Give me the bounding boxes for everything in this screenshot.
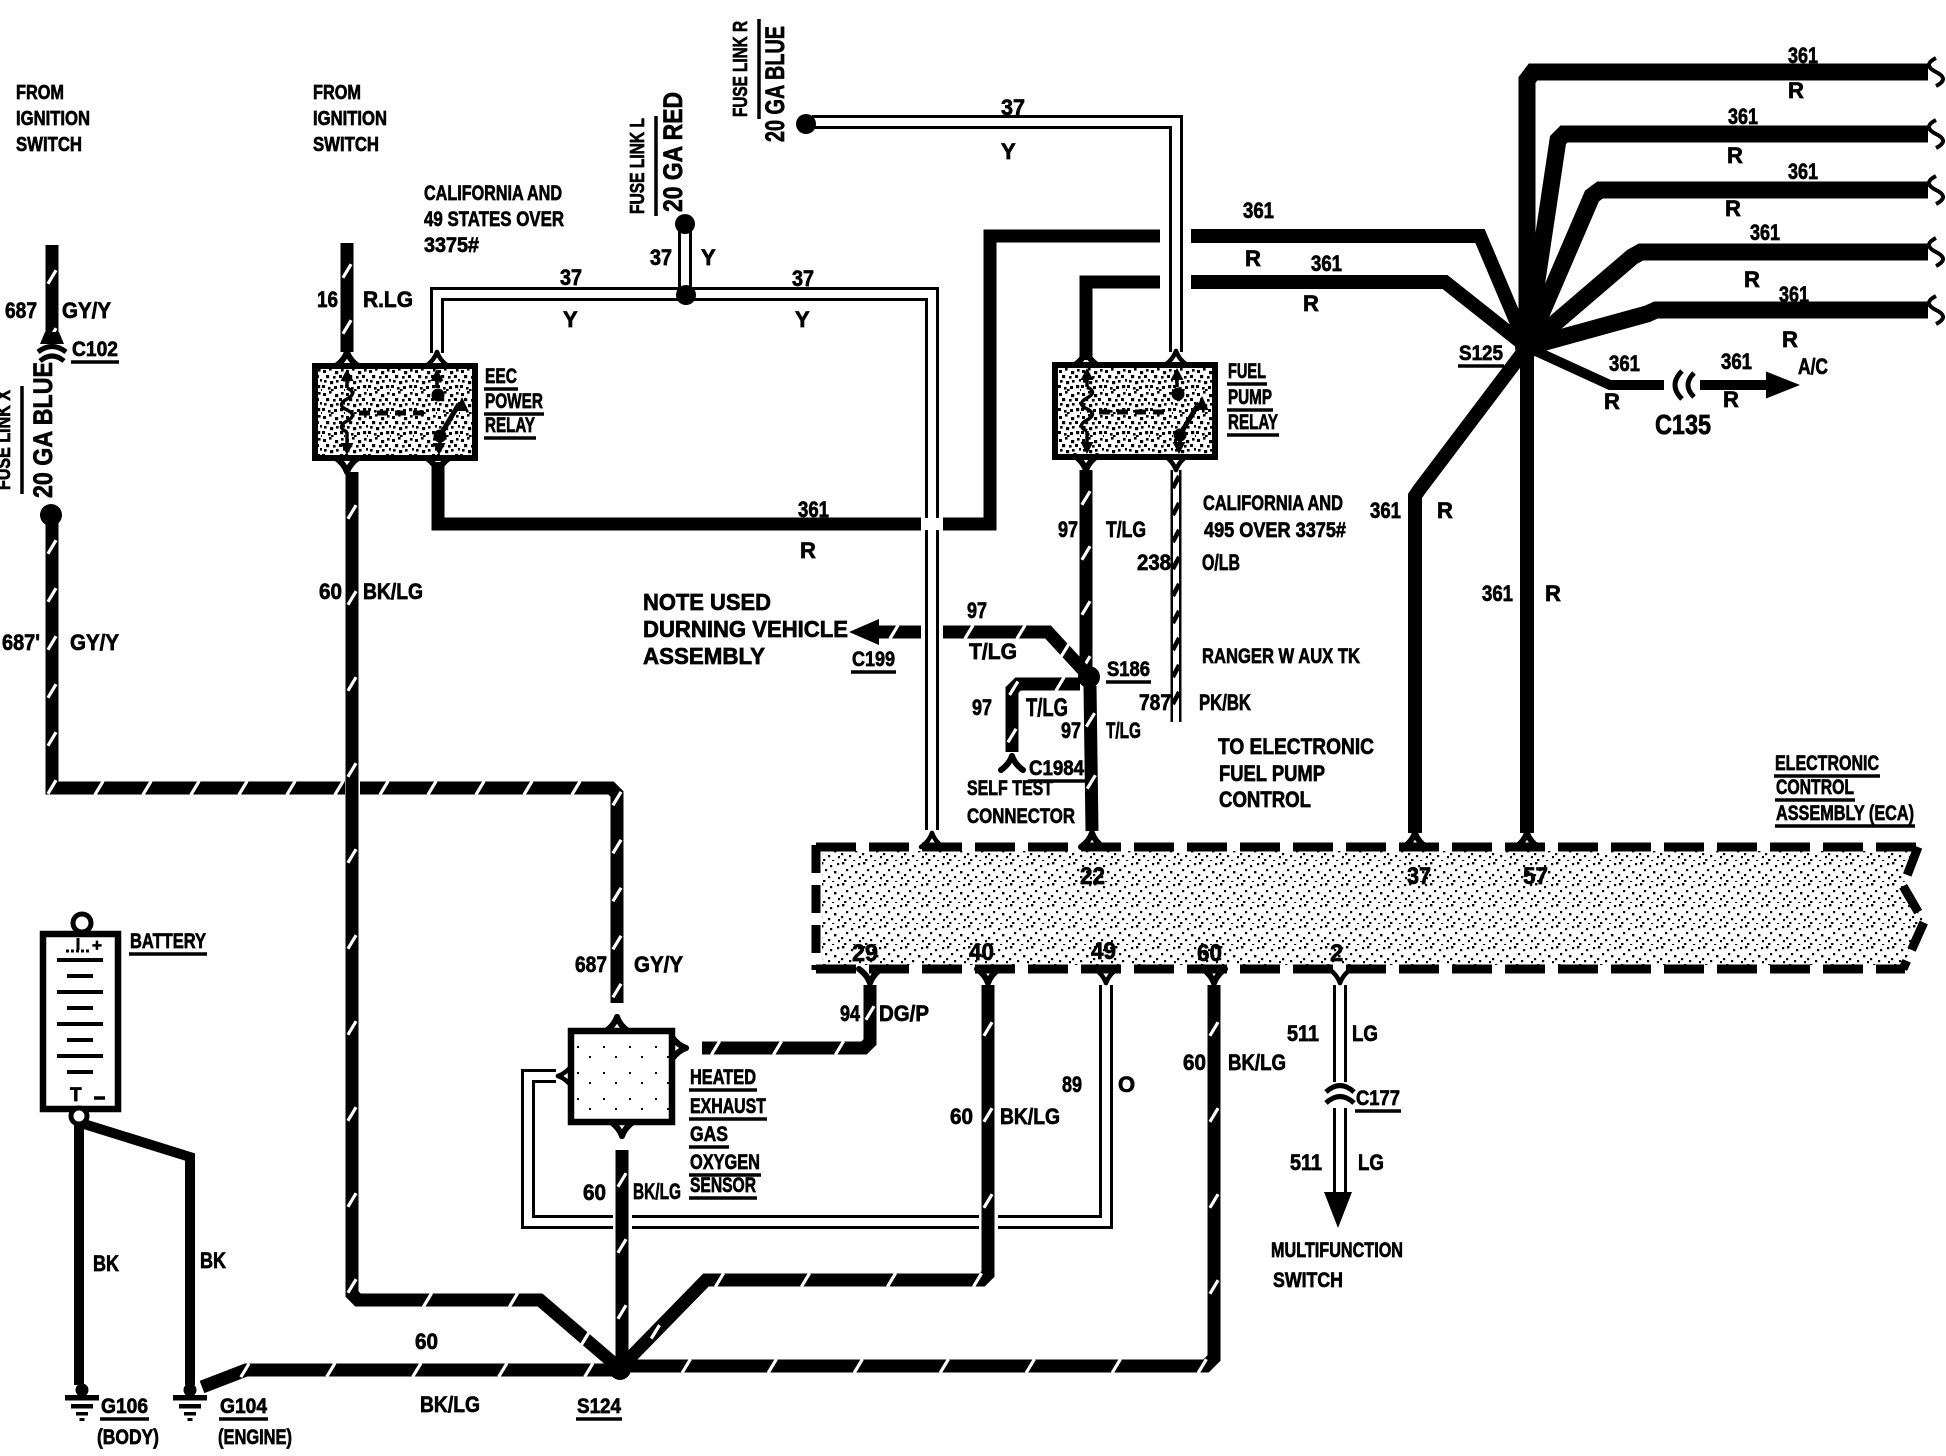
svg-text:S124: S124 <box>577 1395 621 1418</box>
svg-text:787: 787 <box>1139 690 1171 715</box>
svg-text:Y: Y <box>701 245 716 270</box>
svg-text:T: T <box>70 1085 82 1106</box>
svg-text:DG/P: DG/P <box>879 1001 929 1026</box>
svg-text:GY/Y: GY/Y <box>70 630 119 655</box>
svg-text:C102: C102 <box>72 338 118 361</box>
svg-text:R.LG: R.LG <box>363 287 413 312</box>
svg-text:29: 29 <box>852 940 878 967</box>
svg-text:511: 511 <box>1290 1150 1322 1175</box>
svg-text:16: 16 <box>317 287 338 312</box>
svg-text:R: R <box>1788 78 1804 103</box>
svg-text:R: R <box>1725 196 1741 221</box>
svg-text:FUEL: FUEL <box>1228 360 1266 383</box>
svg-text:CONTROL: CONTROL <box>1776 776 1854 799</box>
svg-text:ASSEMBLY (ECA): ASSEMBLY (ECA) <box>1776 802 1914 825</box>
svg-text:R: R <box>1604 389 1620 414</box>
svg-text:LG: LG <box>1358 1150 1384 1175</box>
svg-text:CALIFORNIA AND: CALIFORNIA AND <box>424 182 562 205</box>
svg-text:FROM: FROM <box>313 82 361 104</box>
svg-text:IGNITION: IGNITION <box>16 108 90 130</box>
svg-text:Y: Y <box>1001 139 1016 164</box>
svg-text:O: O <box>1118 1072 1135 1097</box>
svg-text:FROM: FROM <box>16 82 64 104</box>
svg-text:O/LB: O/LB <box>1202 550 1240 575</box>
svg-text:GY/Y: GY/Y <box>634 952 683 977</box>
svg-text:CALIFORNIA AND: CALIFORNIA AND <box>1203 492 1343 515</box>
svg-text:R: R <box>1245 246 1261 271</box>
svg-text:BK: BK <box>200 1248 226 1273</box>
svg-text:FUSE LINK L: FUSE LINK L <box>627 118 649 214</box>
svg-text:361: 361 <box>1243 198 1274 223</box>
svg-text:SENSOR: SENSOR <box>690 1174 756 1197</box>
svg-text:S125: S125 <box>1459 342 1503 365</box>
svg-text:511: 511 <box>1287 1021 1319 1046</box>
svg-text:NOTE USED: NOTE USED <box>643 589 771 615</box>
svg-text:97: 97 <box>972 695 992 720</box>
svg-text:R: R <box>1437 498 1453 523</box>
svg-text:495 OVER 3375#: 495 OVER 3375# <box>1204 519 1346 542</box>
svg-text:R: R <box>1303 291 1319 316</box>
svg-text:361: 361 <box>1779 282 1809 307</box>
svg-text:A/C: A/C <box>1798 354 1828 379</box>
svg-text:EXHAUST: EXHAUST <box>690 1095 766 1118</box>
svg-text:37: 37 <box>792 266 814 291</box>
svg-text:60: 60 <box>583 1180 606 1205</box>
svg-text:R: R <box>1727 143 1743 168</box>
svg-text:(ENGINE): (ENGINE) <box>218 1426 292 1449</box>
svg-text:60: 60 <box>1183 1050 1206 1075</box>
svg-text:EEC: EEC <box>485 365 517 388</box>
svg-text:RANGER W AUX TK: RANGER W AUX TK <box>1202 645 1360 668</box>
svg-text:LG: LG <box>1352 1021 1378 1046</box>
svg-text:49: 49 <box>1091 938 1116 965</box>
svg-text:+: + <box>92 936 102 955</box>
svg-text:49 STATES OVER: 49 STATES OVER <box>424 208 564 231</box>
svg-text:361: 361 <box>798 497 829 522</box>
svg-text:57: 57 <box>1523 863 1548 890</box>
svg-text:T/LG: T/LG <box>969 639 1017 664</box>
svg-text:97: 97 <box>1061 718 1081 743</box>
svg-text:238: 238 <box>1137 550 1171 575</box>
svg-text:T/LG: T/LG <box>1106 718 1141 743</box>
svg-text:60: 60 <box>1197 940 1222 967</box>
svg-text:FUSE LINK R: FUSE LINK R <box>730 21 752 117</box>
svg-text:FUEL PUMP: FUEL PUMP <box>1219 761 1325 786</box>
svg-text:37: 37 <box>650 245 672 270</box>
svg-text:R: R <box>1744 267 1760 292</box>
svg-text:R: R <box>1782 327 1798 352</box>
svg-text:FUSE LINK X: FUSE LINK X <box>0 389 15 490</box>
svg-text:C199: C199 <box>852 648 895 671</box>
svg-text:G104: G104 <box>220 1395 267 1418</box>
svg-text:361: 361 <box>1788 159 1818 184</box>
svg-text:361: 361 <box>1750 220 1780 245</box>
svg-text:ASSEMBLY: ASSEMBLY <box>643 643 765 669</box>
svg-text:BK/LG: BK/LG <box>1228 1050 1286 1075</box>
svg-text:361: 361 <box>1721 349 1752 374</box>
svg-text:97: 97 <box>967 598 987 623</box>
svg-text:BK/LG: BK/LG <box>363 579 423 604</box>
svg-text:Y: Y <box>563 307 578 332</box>
svg-text:97: 97 <box>1058 517 1078 542</box>
svg-text:R: R <box>1723 387 1739 412</box>
svg-text:CONNECTOR: CONNECTOR <box>967 805 1075 828</box>
svg-text:C135: C135 <box>1655 409 1711 440</box>
svg-text:ELECTRONIC: ELECTRONIC <box>1775 752 1879 775</box>
svg-text:60: 60 <box>319 579 342 604</box>
svg-text:20 GA RED: 20 GA RED <box>658 92 688 212</box>
svg-text:R: R <box>1545 581 1561 606</box>
svg-text:361: 361 <box>1311 251 1342 276</box>
svg-text:22: 22 <box>1080 863 1105 890</box>
svg-text:361: 361 <box>1788 43 1818 68</box>
svg-text:94: 94 <box>840 1001 861 1026</box>
svg-text:T/LG: T/LG <box>1106 517 1146 542</box>
svg-text:60: 60 <box>950 1104 973 1129</box>
svg-text:GY/Y: GY/Y <box>62 298 111 323</box>
svg-text:20 GA BLUE: 20 GA BLUE <box>760 26 790 142</box>
svg-text:HEATED: HEATED <box>690 1066 756 1089</box>
svg-text:20 GA BLUE: 20 GA BLUE <box>28 362 58 498</box>
svg-text:C177: C177 <box>1356 1087 1400 1110</box>
svg-text:361: 361 <box>1609 351 1640 376</box>
svg-text:DURNING VEHICLE: DURNING VEHICLE <box>643 616 848 642</box>
svg-text:687: 687 <box>5 298 37 323</box>
svg-text:IGNITION: IGNITION <box>313 108 387 130</box>
svg-text:S186: S186 <box>1107 658 1150 681</box>
svg-text:687': 687' <box>2 630 40 655</box>
svg-text:GAS: GAS <box>690 1123 728 1146</box>
svg-text:R: R <box>800 538 816 563</box>
svg-text:BK/LG: BK/LG <box>633 1179 681 1204</box>
svg-text:BK/LG: BK/LG <box>1000 1104 1060 1129</box>
svg-text:361: 361 <box>1728 104 1758 129</box>
svg-text:TO ELECTRONIC: TO ELECTRONIC <box>1218 734 1374 759</box>
svg-text:OXYGEN: OXYGEN <box>690 1151 760 1174</box>
svg-text:3375#: 3375# <box>424 234 479 257</box>
svg-text:PK/BK: PK/BK <box>1199 690 1251 715</box>
svg-text:361: 361 <box>1370 498 1401 523</box>
svg-text:37: 37 <box>1001 95 1025 120</box>
svg-text:PUMP: PUMP <box>1228 386 1272 409</box>
svg-text:BK/LG: BK/LG <box>420 1392 480 1417</box>
svg-text:SWITCH: SWITCH <box>1273 1269 1343 1292</box>
svg-text:SWITCH: SWITCH <box>313 134 379 156</box>
svg-text:RELAY: RELAY <box>1228 411 1278 434</box>
svg-text:2: 2 <box>1330 940 1343 967</box>
svg-text:37: 37 <box>1407 863 1431 890</box>
svg-text:60: 60 <box>415 1329 438 1354</box>
svg-text:37: 37 <box>560 265 582 290</box>
svg-text:BK: BK <box>93 1251 119 1276</box>
svg-text:687: 687 <box>575 952 607 977</box>
svg-text:40: 40 <box>969 939 994 966</box>
svg-text:BATTERY: BATTERY <box>130 930 206 953</box>
svg-text:89: 89 <box>1062 1072 1082 1097</box>
svg-text:MULTIFUNCTION: MULTIFUNCTION <box>1271 1239 1403 1262</box>
svg-text:(BODY): (BODY) <box>97 1426 159 1449</box>
svg-text:SWITCH: SWITCH <box>16 134 82 156</box>
svg-text:CONTROL: CONTROL <box>1219 787 1311 812</box>
svg-text:361: 361 <box>1482 581 1513 606</box>
svg-text:RELAY: RELAY <box>485 414 535 437</box>
svg-text:G106: G106 <box>101 1395 148 1418</box>
svg-text:POWER: POWER <box>485 390 543 413</box>
svg-text:Y: Y <box>795 307 810 332</box>
svg-text:SELF TEST: SELF TEST <box>967 777 1053 800</box>
